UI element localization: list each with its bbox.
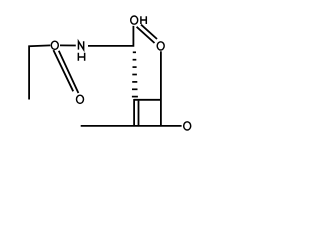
- hashed stereo bond C* to ring (7 dashes): [132, 52, 138, 96]
- double bond OH to O3 line 2: [141, 25, 157, 39]
- double bond O1 to O2 line 2: [59, 51, 79, 93]
- bond O1 to N: [60, 44, 76, 46]
- OH label: O: [131, 16, 138, 24]
- bond O3 down to ring + ring right edge: [160, 51, 162, 126]
- O1 ether oxygen label: [51, 41, 58, 49]
- ethyl chain: CH3-CH2 vertical + bond to O1: [29, 45, 50, 99]
- double bond OH to O3 line 1: [137, 27, 155, 43]
- ring left edge: [133, 99, 135, 126]
- ring top edge: [134, 99, 161, 101]
- O2 carbonyl oxygen label: [77, 95, 84, 103]
- O4 oxygen label: [184, 122, 191, 130]
- H label under N: [78, 53, 84, 61]
- OH label: H: [141, 16, 146, 24]
- double bond O1 to O2 (carbonyl artifact) line 1: [53, 50, 73, 91]
- bond N to C* and C* to OH: [88, 26, 133, 46]
- ring bottom edge + methyl bond + bond to O4: [81, 125, 182, 127]
- N label: [78, 41, 83, 49]
- ring double bond inner line: [138, 101, 140, 126]
- O3 ester oxygen label: [157, 42, 164, 50]
